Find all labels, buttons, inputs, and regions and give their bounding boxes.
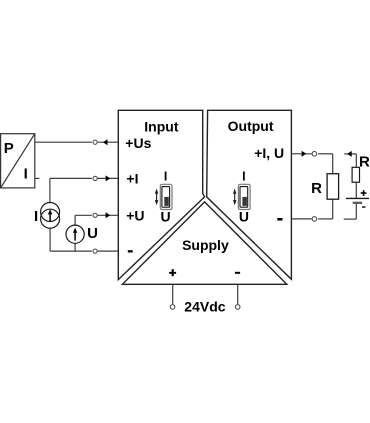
svg-text:+U: +U [126, 207, 144, 223]
svg-text:+Us: +Us [125, 135, 151, 151]
svg-text:R: R [359, 154, 370, 171]
svg-text:+I, U: +I, U [254, 145, 284, 161]
svg-text:P: P [4, 140, 14, 157]
svg-text:I: I [164, 169, 167, 183]
svg-text:+I: +I [126, 171, 138, 187]
svg-text:Supply: Supply [182, 237, 229, 253]
svg-text:U: U [239, 209, 249, 225]
svg-text:Input: Input [144, 118, 179, 134]
svg-text:R: R [311, 180, 322, 197]
svg-text:I: I [34, 208, 38, 225]
svg-text:I: I [24, 166, 28, 183]
svg-text:I: I [242, 169, 245, 183]
svg-text:U: U [161, 209, 171, 225]
svg-text:Output: Output [228, 118, 274, 134]
svg-text:U: U [87, 225, 98, 242]
svg-text:24Vdc: 24Vdc [184, 299, 225, 315]
